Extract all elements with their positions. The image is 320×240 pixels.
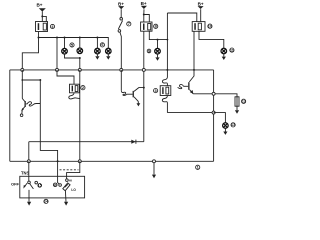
- node B+ feed 2 arrow: [118, 6, 124, 9]
- label circled 6: [100, 43, 104, 47]
- fuse box F4: [36, 22, 48, 32]
- junction dot: [21, 79, 23, 81]
- switch SW2 upper contact: [66, 179, 69, 182]
- connector ring: [78, 160, 81, 163]
- wire base rail staircase: [40, 80, 57, 161]
- switch SW2 pivot contact: [59, 184, 62, 187]
- fuse box F10: [192, 22, 205, 32]
- label circled 3: [154, 89, 158, 93]
- transistor Q1: [22, 99, 25, 102]
- wire B+1 stem: [41, 11, 43, 21]
- junction dot: [96, 37, 98, 39]
- wire branch to lamp L13: [214, 113, 226, 123]
- wire hook below B3: [162, 96, 167, 113]
- ground below SW1: [28, 190, 30, 202]
- wire box B2 feed: [57, 70, 74, 84]
- wire TNS feed into switch: [28, 161, 30, 181]
- wire fuse F4 output: [38, 32, 40, 38]
- svg-text:HI: HI: [69, 179, 72, 183]
- wire jog into fuse F8: [144, 15, 150, 23]
- switch SW2 lever outlined arrow: [63, 183, 70, 191]
- ground below lamp L13: [224, 128, 226, 131]
- wire switch S7 rail below bus: [120, 70, 122, 90]
- wire fuse F8 right output to lamp L5: [149, 31, 167, 39]
- svg-text:7: 7: [128, 21, 130, 26]
- label circled 7: [127, 22, 131, 26]
- label circled 15: [38, 184, 42, 188]
- wire feed to SW2 upper contact: [67, 161, 80, 179]
- wire branch to lamp L11: [199, 31, 224, 48]
- wire drop x57 to main bus: [56, 38, 58, 70]
- lighting switch box B14: [20, 176, 85, 198]
- control box B3: [160, 86, 171, 96]
- wire fuse F10 output rail: [193, 31, 195, 70]
- diode D1: [131, 140, 135, 144]
- switch SW1 lever: [30, 184, 34, 189]
- connector ring: [212, 92, 215, 95]
- connector ring: [27, 160, 30, 163]
- label circled 10: [208, 24, 212, 28]
- lamp L5: [157, 40, 159, 49]
- lamp L3: [96, 38, 98, 49]
- wire collector feed: [21, 80, 23, 99]
- svg-text:10: 10: [208, 24, 212, 29]
- svg-text:B+: B+: [198, 1, 204, 6]
- wire line A left drop: [28, 142, 30, 162]
- lamp L11: [221, 48, 227, 54]
- mechanical link dashed: [60, 169, 79, 171]
- switch SW1 travel arrow: [25, 183, 27, 186]
- svg-text:TNS: TNS: [21, 170, 29, 175]
- junction dot: [39, 79, 41, 81]
- wire coil squiggle below B2: [69, 93, 80, 99]
- wire left rail: [9, 70, 11, 161]
- fuse box F8: [141, 22, 152, 31]
- label circled 1: [196, 165, 200, 169]
- wire B+3 stem: [143, 9, 145, 14]
- label circled 12: [242, 99, 246, 103]
- wire top lamp bus: [39, 38, 109, 49]
- junction dot: [64, 37, 66, 39]
- wire emitter line to right rail: [193, 94, 237, 111]
- label circled 13: [231, 123, 235, 127]
- label circled 2: [81, 86, 85, 90]
- wire B+4 stem: [200, 9, 202, 21]
- connector ring: [56, 68, 59, 71]
- lamp L13: [223, 123, 229, 129]
- switch SW1 contact b: [35, 181, 38, 184]
- node B+ feed 3 arrow: [141, 6, 147, 9]
- junction dot: [157, 39, 159, 41]
- wire to switch S7: [120, 9, 122, 17]
- transistor Q3: [178, 84, 184, 88]
- connector ring with ground: [153, 160, 156, 163]
- node B+ feed 4 arrow: [198, 6, 204, 9]
- node B+ feed 1 arrow: [39, 8, 46, 11]
- switch SW1 contact a: [28, 181, 31, 184]
- wire main bus y70: [10, 69, 214, 71]
- label circled 14: [44, 199, 48, 203]
- wire rail 167 upper: [166, 13, 168, 70]
- lamp L2: [79, 38, 81, 49]
- relay box B2: [70, 84, 80, 93]
- wire link from rail 167 into F10 left lead: [167, 13, 196, 22]
- switch S7: [120, 18, 123, 21]
- lamp L1: [64, 38, 66, 49]
- wire ring22 branch: [22, 70, 40, 80]
- label circled 5: [70, 43, 74, 47]
- connector ring: [21, 68, 24, 71]
- wire fuse F8 left output rail: [143, 31, 145, 142]
- wire switch S7 to bus: [120, 32, 121, 70]
- svg-text:B+: B+: [141, 1, 147, 6]
- svg-text:B+: B+: [36, 2, 42, 7]
- wire feed to SW2 pivot: [58, 161, 60, 184]
- wire lamp L1/L2 bottoms: [65, 54, 80, 70]
- wire bottom bus: [10, 160, 214, 162]
- label circled 8: [154, 24, 158, 28]
- ground below R12: [235, 110, 239, 113]
- junction dot: [57, 160, 59, 162]
- lamp L4: [106, 48, 112, 54]
- ground below lamp L5: [157, 54, 159, 58]
- junction dot: [79, 57, 81, 59]
- resistor R12: [235, 97, 239, 106]
- wire rail x79: [79, 70, 81, 161]
- junction dot above fuse F4: [41, 15, 43, 17]
- ground below L3: [96, 54, 98, 56]
- junction dot: [193, 69, 195, 71]
- junction dot: [79, 37, 81, 39]
- wire line A with diode: [29, 141, 144, 143]
- transistor Q2: [121, 90, 127, 95]
- ground below L4: [107, 54, 109, 56]
- junction dot: [167, 39, 169, 41]
- label circled 9: [147, 49, 151, 53]
- ground below lamp L11: [223, 54, 225, 57]
- svg-text:LO: LO: [71, 188, 76, 192]
- junction dot: [166, 69, 168, 71]
- connector ring: [78, 68, 81, 71]
- wire B3 output to right rail: [167, 112, 213, 114]
- connector ring: [212, 111, 215, 114]
- junction dot above fuse F8: [143, 14, 145, 16]
- wire jog into fuse F4: [42, 16, 46, 21]
- junction dot: [56, 37, 58, 39]
- wire right rail: [213, 70, 215, 161]
- connector ring: [142, 68, 145, 71]
- ground below SW2: [64, 191, 67, 202]
- svg-text:B+: B+: [118, 1, 124, 6]
- label circled 4: [50, 24, 54, 28]
- label circled 16: [53, 183, 57, 187]
- label circled 11: [230, 48, 234, 52]
- wire rail 167 hook top: [162, 70, 167, 86]
- wire step from fuse F4 output to ring 22: [22, 38, 38, 70]
- svg-text:OFF: OFF: [11, 181, 20, 186]
- connector ring: [120, 68, 123, 71]
- junction dot at bus: [38, 37, 40, 39]
